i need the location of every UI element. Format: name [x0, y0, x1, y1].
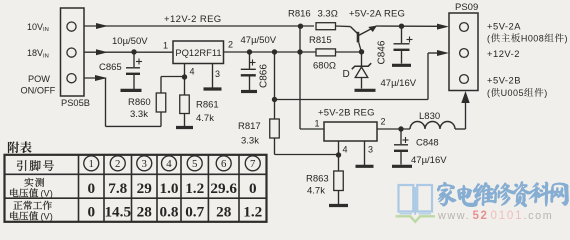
zener diode D — [352, 52, 371, 89]
svg-text:29: 29 — [137, 180, 153, 197]
pin label POW ON/OFF — [21, 74, 56, 96]
wire pin 3 to ground — [364, 141, 366, 165]
svg-text:PQ12RF11: PQ12RF11 — [175, 47, 221, 58]
capacitor C848 — [394, 129, 409, 165]
ground C865 — [121, 89, 142, 92]
wire pin4 to R860 top — [161, 77, 185, 94]
svg-text:47µ/16V: 47µ/16V — [381, 78, 417, 89]
table voltage values — [87, 180, 262, 220]
svg-text:C865: C865 — [99, 62, 122, 73]
node junction +12V routing — [272, 97, 277, 102]
wire L830 to PS09 pin 3 — [455, 91, 470, 129]
svg-text:52: 52 — [473, 210, 489, 222]
svg-text:1.2: 1.2 — [185, 180, 204, 197]
transistor Q1 — [351, 26, 378, 52]
svg-text:0.8: 0.8 — [160, 203, 179, 220]
table circled pin numbers 1-7 — [84, 156, 261, 171]
svg-text:28: 28 — [137, 203, 153, 220]
svg-text:0.7: 0.7 — [185, 203, 204, 220]
svg-text:R860: R860 — [128, 97, 151, 108]
svg-text:3.3Ω: 3.3Ω — [318, 9, 338, 20]
wire vertical x274 down to R817 — [274, 52, 276, 119]
svg-text:+12V-2: +12V-2 — [487, 48, 520, 59]
svg-text:L830: L830 — [419, 111, 440, 122]
ground zener — [355, 89, 376, 92]
svg-text:www.: www. — [437, 210, 470, 222]
wire R816 to transistor collector — [336, 25, 351, 28]
svg-text:+5V-2A REG: +5V-2A REG — [349, 9, 405, 20]
wire +12V routing horizontal — [275, 99, 429, 101]
svg-text:C866: C866 — [259, 64, 270, 88]
net label (supply main board H008) — [487, 33, 568, 43]
svg-text:29.6: 29.6 — [210, 180, 237, 197]
svg-text:1: 1 — [163, 41, 168, 51]
svg-text:2: 2 — [228, 40, 233, 50]
row label measured voltage — [10, 178, 53, 199]
svg-text:(: ( — [487, 34, 490, 44]
svg-text:4.7k: 4.7k — [307, 186, 325, 197]
node junction x300 main rail — [297, 49, 302, 54]
ground R863 — [329, 204, 348, 207]
svg-text:10V: 10V — [27, 22, 43, 32]
svg-text:D: D — [343, 69, 350, 80]
node pin4 junction — [182, 74, 187, 79]
svg-text:0: 0 — [249, 180, 257, 197]
svg-text:R816: R816 — [288, 9, 311, 20]
regulator U2 +5V-2B box — [324, 122, 377, 141]
wire R815 to base node — [336, 51, 362, 53]
svg-text:IN: IN — [43, 53, 49, 59]
svg-text:10µ/50V: 10µ/50V — [112, 36, 148, 47]
table heading 附表 — [8, 141, 32, 153]
svg-text:4: 4 — [343, 145, 348, 155]
resistor R817 — [270, 119, 280, 138]
svg-text:0101: 0101 — [491, 210, 524, 222]
node junction R817 branch on main rail — [272, 49, 277, 54]
watermark text 家电维修资料网 — [437, 182, 568, 207]
resistor R860 — [156, 93, 166, 112]
svg-text:H008: H008 — [521, 34, 544, 44]
svg-text:PS05B: PS05B — [61, 98, 90, 108]
label R817 3.3k — [238, 121, 261, 147]
svg-text:1.2: 1.2 — [243, 203, 262, 220]
svg-text:3.3k: 3.3k — [130, 109, 148, 120]
svg-text:1: 1 — [315, 119, 320, 129]
wire PQ pin 3 — [212, 63, 214, 88]
svg-text:): ) — [565, 34, 568, 44]
svg-text:C846: C846 — [377, 40, 388, 64]
node C865 junction — [131, 49, 136, 54]
svg-text:R863: R863 — [306, 174, 329, 185]
net label (supply U005) — [487, 88, 548, 98]
node base junction — [359, 49, 364, 54]
svg-text:2: 2 — [115, 158, 120, 170]
svg-text:2: 2 — [381, 117, 386, 127]
watermark url www.520101.com — [437, 210, 553, 222]
svg-text:4: 4 — [166, 158, 172, 170]
svg-text:14.5: 14.5 — [104, 203, 131, 220]
label R863 4.7k — [306, 174, 329, 197]
svg-text:0: 0 — [87, 203, 95, 220]
node L830/C848 junction — [398, 126, 403, 131]
op-amp/regulator U1 PQ12RF11 — [173, 41, 224, 64]
pin label 10V IN — [27, 22, 49, 33]
wire pin 4 — [338, 141, 340, 155]
node pin 4 junction — [336, 152, 341, 157]
ground pin 3 — [204, 87, 222, 90]
svg-text:+5V-2A: +5V-2A — [487, 21, 521, 32]
resistor R815 — [316, 49, 336, 56]
svg-text:47µ/16V: 47µ/16V — [411, 155, 447, 166]
svg-text:1.0: 1.0 — [160, 180, 179, 197]
svg-text:.com: .com — [524, 210, 554, 222]
svg-text:3: 3 — [142, 158, 147, 170]
resistor R816 — [316, 23, 336, 30]
wire vertical bus x300 — [299, 26, 301, 129]
svg-text:47µ/50V: 47µ/50V — [241, 35, 277, 46]
table grid — [5, 155, 267, 222]
ground pin 3 — [356, 165, 374, 168]
ground R861 — [176, 126, 193, 129]
svg-text:18V: 18V — [27, 48, 43, 58]
wire R817 bottom to pin4 node — [275, 138, 339, 155]
connector PS09 — [449, 13, 478, 91]
table header 引脚号 — [17, 160, 54, 171]
node C866 junction — [247, 49, 252, 54]
svg-text:(: ( — [487, 88, 490, 98]
svg-text:3: 3 — [215, 69, 220, 79]
label R816 3.3ohm — [288, 9, 338, 20]
wire pin 2 to L830 node — [377, 128, 410, 130]
node junction top rail x300 — [298, 24, 303, 29]
label R861 4.7k — [196, 100, 219, 125]
row label normal working voltage — [10, 201, 53, 222]
wire 18V pin to PQ12RF11 pin 1 with arrow — [84, 49, 173, 55]
svg-text:POW: POW — [28, 74, 50, 84]
inductor L830 — [410, 122, 455, 129]
svg-text:ON/OFF: ON/OFF — [21, 86, 56, 96]
wire POW arrow — [84, 75, 107, 81]
svg-text:6: 6 — [221, 158, 227, 170]
capacitor C865 — [126, 52, 142, 89]
svg-text:C848: C848 — [416, 138, 439, 149]
svg-text:+5V-2B REG: +5V-2B REG — [318, 108, 375, 119]
wire PQ pin 4 — [184, 63, 186, 77]
svg-text:IN: IN — [43, 27, 49, 33]
svg-text:7: 7 — [250, 158, 256, 170]
capacitor C866 — [241, 52, 256, 90]
label R860 3.3k — [128, 97, 151, 120]
wire R863 to ground — [338, 191, 340, 205]
svg-text:1: 1 — [89, 158, 94, 170]
svg-text:3.3k: 3.3k — [241, 136, 259, 147]
svg-text:U005: U005 — [501, 88, 524, 98]
svg-text:PS09: PS09 — [455, 2, 478, 13]
svg-text:R861: R861 — [196, 100, 219, 111]
wire pin4 to R861 — [184, 77, 186, 95]
connector PS05B — [61, 8, 85, 96]
svg-text:+5V-2B: +5V-2B — [487, 75, 521, 86]
resistor R861 — [180, 95, 190, 114]
svg-text:680Ω: 680Ω — [313, 61, 336, 72]
svg-text:+12V-2 REG: +12V-2 REG — [164, 14, 222, 25]
wire into pin 1 — [300, 128, 324, 130]
svg-text:7.8: 7.8 — [108, 180, 127, 197]
resistor R863 — [334, 171, 344, 191]
svg-text:): ) — [544, 88, 547, 98]
wire pin4 node to R863 — [338, 155, 340, 171]
node C846 junction — [399, 24, 404, 29]
ground C866 — [241, 90, 257, 93]
svg-text:R815: R815 — [309, 35, 332, 46]
watermark book icon — [396, 185, 436, 222]
svg-text:R817: R817 — [238, 121, 261, 132]
svg-text:3: 3 — [368, 145, 373, 155]
svg-text:5: 5 — [192, 158, 197, 170]
wire 10V pin to +12V-2 rail with arrow — [84, 23, 314, 29]
wire emitter to PS09 pin1 — [376, 24, 449, 30]
wire arrow into PS09 pin 2 (+12V-2) — [428, 50, 449, 100]
wire PQ pin 2 to R815 — [223, 51, 316, 53]
ground C848 — [392, 165, 412, 168]
wire R860 bottom to POW pin — [106, 78, 162, 126]
svg-text:28: 28 — [216, 203, 232, 220]
svg-text:4.7k: 4.7k — [196, 113, 214, 124]
wire R861 to ground — [184, 114, 186, 127]
ground C846 — [392, 64, 411, 67]
pin label 18V IN — [27, 48, 49, 59]
svg-text:(V): (V) — [41, 212, 53, 222]
svg-text:(V): (V) — [41, 189, 53, 199]
svg-text:0: 0 — [87, 180, 95, 197]
capacitor C846 — [394, 26, 413, 63]
svg-text:4: 4 — [190, 67, 195, 77]
